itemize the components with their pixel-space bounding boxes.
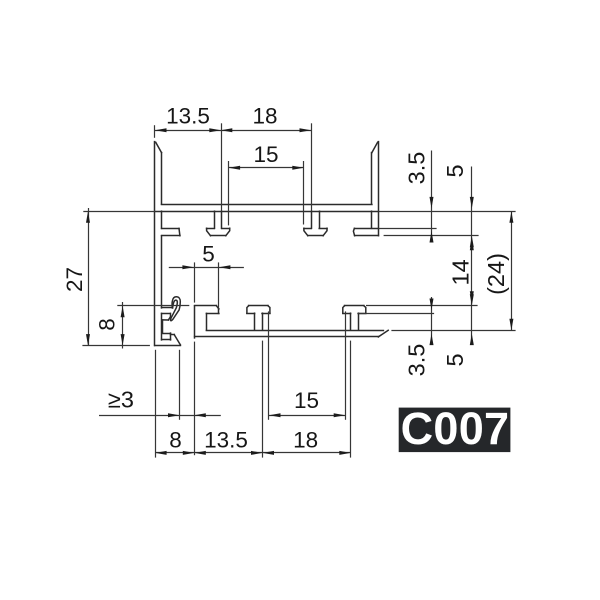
svg-text:5: 5 [442, 164, 468, 177]
svg-text:27: 27 [62, 267, 87, 292]
svg-text:8: 8 [95, 318, 120, 331]
svg-text:8: 8 [169, 428, 182, 453]
svg-text:3.5: 3.5 [404, 344, 430, 377]
svg-text:15: 15 [294, 388, 319, 413]
svg-text:(24): (24) [483, 253, 509, 295]
svg-text:5: 5 [442, 353, 468, 366]
svg-text:18: 18 [293, 428, 318, 453]
svg-text:13.5: 13.5 [166, 104, 210, 129]
svg-text:5: 5 [202, 241, 215, 266]
svg-text:15: 15 [253, 142, 278, 167]
svg-text:C007: C007 [401, 403, 510, 454]
svg-text:≥3: ≥3 [108, 387, 134, 413]
svg-text:14: 14 [448, 259, 474, 285]
svg-text:3.5: 3.5 [404, 152, 430, 185]
svg-text:13.5: 13.5 [204, 428, 248, 453]
svg-text:18: 18 [252, 104, 277, 129]
